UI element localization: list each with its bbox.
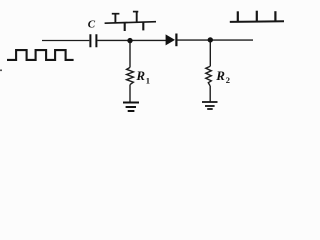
waveform A up-spike 2 [136, 11, 138, 22]
svg-text:R: R [135, 68, 145, 83]
input square-wave signal symbol [7, 50, 74, 60]
output waveform symbol baseline [230, 20, 284, 23]
waveform A down-spike 2 [142, 22, 144, 30]
waveform A up-spike 2 cap [133, 11, 138, 13]
wire R1 to ground [129, 85, 131, 102]
svg-text:1: 1 [146, 75, 150, 85]
svg-text:2: 2 [226, 75, 230, 85]
ground 2 [202, 102, 218, 109]
resistor R2 [206, 66, 212, 86]
diode D1 [166, 34, 175, 45]
waveform A up-spike 1 [114, 13, 116, 23]
output up-spike 3 [274, 11, 276, 21]
wire diode to output [177, 39, 253, 41]
wire R2 to ground [209, 86, 211, 101]
output up-spike 1 [237, 11, 239, 21]
capacitor C [90, 34, 96, 47]
svg-text:R: R [215, 68, 225, 83]
edge artifact [0, 70, 2, 72]
wire node1 to resistor R1 [129, 43, 131, 68]
svg-text:C: C [88, 18, 96, 30]
ground 1 [123, 103, 139, 112]
waveform A up-spike 1 cap [112, 13, 120, 15]
differentiated waveform symbol (node A) baseline [105, 22, 156, 24]
node junction dot 1 [127, 38, 132, 43]
output up-spike 2 [256, 11, 258, 22]
resistor R1 [127, 67, 134, 84]
node junction dot 2 [208, 37, 213, 42]
wire input to capacitor [42, 40, 89, 42]
wire capacitor to diode [97, 39, 166, 41]
wire node2 to resistor R2 [209, 43, 211, 67]
waveform A down-spike 1 [124, 23, 126, 31]
